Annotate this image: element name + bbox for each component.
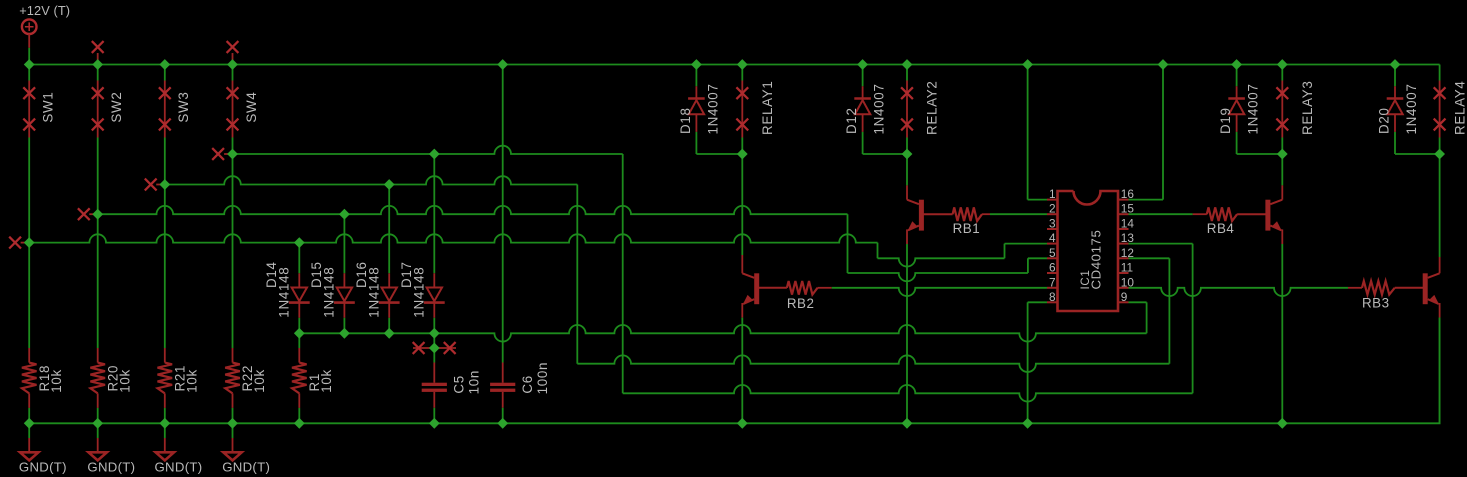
wire Q4 base [1395,287,1424,289]
capacitor C5 10n [422,348,447,423]
wire D15 column [343,214,345,333]
wire D16 column [388,185,390,334]
svg-text:16: 16 [1121,187,1135,201]
switch SW1 contact crosses [23,87,35,99]
label C5 10n [452,370,482,394]
switch SW4 contact crosses [227,87,239,99]
svg-text:10: 10 [1121,275,1135,289]
svg-text:5: 5 [1049,246,1056,260]
svg-text:11: 11 [1121,261,1133,275]
resistor RB4 [1207,207,1237,221]
label D19 1N4007 [1218,83,1261,134]
ground GND(T) [97,423,99,452]
wire pin9 riser [1146,302,1148,333]
wire SW3 drop [576,185,578,364]
wire row SW2 to staircase [94,206,847,214]
diode D19 1N4007 [1228,97,1245,100]
wire mid horizontal to pin12 riser [577,355,1169,372]
IC1 pin numbers left 1-8 [1049,187,1056,304]
junction dots switch rows [24,149,440,248]
relay coil RELAY3 [1281,65,1283,155]
wire pin13 riser [1192,244,1194,394]
svg-text:CD40175: CD40175 [1089,230,1104,290]
svg-text:RELAY4: RELAY4 [1453,80,1467,135]
wire Q3 collector [1281,154,1283,200]
svg-text:1N4148: 1N4148 [412,267,427,318]
switch SW4 [232,65,234,155]
svg-text:6: 6 [1049,261,1056,275]
svg-text:10n: 10n [467,370,482,394]
label D15 1N4148 [309,261,337,317]
wire Q1 base [759,287,787,289]
svg-text:D19: D19 [1218,107,1233,134]
svg-text:RB3: RB3 [1362,296,1390,311]
diode D12 1N4007 [854,97,871,100]
junction dots diode bus [294,328,440,339]
svg-text:GND(T): GND(T) [87,459,135,474]
wire SW2 row to pin5 segment [848,273,1028,281]
wire R18 column [28,243,30,424]
wire Q3 base [1237,213,1266,215]
wire SW1 row to pin4 segment [878,258,1005,266]
junction dots relay bottoms [737,149,1445,160]
pin cross above bus at SW2 [97,53,99,65]
svg-text:C6: C6 [520,375,535,394]
wire pin15 to RB4 [1193,213,1207,215]
label D12 1N4007 [844,83,887,134]
node row SW4 with pin cross [224,153,229,155]
wire low horizontal to pin13 riser [623,385,1193,402]
switch SW2 [97,65,99,215]
svg-text:12: 12 [1121,246,1134,260]
svg-text:1N4007: 1N4007 [1246,83,1261,134]
relay coil RELAY2 [906,65,908,155]
wire into pin4 [1005,243,1048,245]
svg-text:1N4148: 1N4148 [322,267,337,318]
wire into pin5 [1028,257,1047,259]
svg-text:GND(T): GND(T) [155,459,203,474]
wire Q3 emitter [1281,229,1283,423]
label R18 10k [37,365,64,393]
wire Q2 base [923,213,952,215]
svg-text:13: 13 [1121,231,1135,245]
svg-text:2: 2 [1049,202,1056,216]
wire into pin13 [1129,243,1193,245]
relay coil RELAY4 [1439,65,1441,155]
wire ground bus [29,318,1439,424]
node row SW2 with pin cross [89,213,94,215]
switch SW1 [28,65,30,243]
switch SW3 [164,65,166,185]
diode D19 1N4007 column [1236,65,1238,155]
svg-text:D18: D18 [678,107,693,134]
svg-text:1N4148: 1N4148 [277,267,292,318]
wire Q1 collector [741,154,743,273]
svg-text:SW4: SW4 [244,91,259,122]
wire Q2 collector [906,154,908,200]
diode D20 1N4007 column [1394,65,1396,155]
wire pin1 to +12V bus [1028,65,1047,200]
power +12V(T) supply symbol [22,19,37,64]
wire Q4 emitter [1439,303,1441,423]
svg-text:1N4007: 1N4007 [872,83,887,134]
pin cross above bus at SW4 [232,53,234,65]
wire RB2 to pin7 [818,287,832,289]
resistor R1 10k [292,363,307,394]
wire row SW1 to staircase [26,234,878,242]
svg-text:100n: 100n [535,362,550,395]
svg-text:10k: 10k [319,369,334,393]
wire R22 column [232,154,234,423]
resistor R20 10k [90,363,105,394]
resistor R21 10k [158,363,173,394]
svg-text:RB2: RB2 [787,296,815,311]
node C5 top with pin crosses [413,333,456,348]
label R1 10k [307,369,334,393]
transistor Q3 (RELAY3 driver) [1265,200,1270,231]
wire row SW3 [161,176,577,184]
junction dots ground bus [24,418,1288,429]
label D18 1N4007 [678,83,721,134]
svg-text:1N4148: 1N4148 [366,267,381,318]
wire pin10 to RB3 [1348,287,1362,289]
wire pin8 to ground bus [1028,302,1047,423]
ground GND(T) [164,423,166,452]
wire R20 column [97,214,99,423]
transistor Q4 (RELAY4 driver) [1423,273,1428,304]
ground GND(T) [28,423,30,452]
junction dot C5 node [429,343,440,354]
resistor R22 10k [225,363,240,394]
wire Q1 emitter [741,303,743,423]
resistor RB2 [787,281,818,295]
wire pin12 riser [1168,258,1170,363]
ground GND(T) [232,423,234,452]
diode D14 1N4148 [292,288,307,302]
wire into pin12 [1129,257,1170,259]
wire pin5 riser [1027,258,1029,273]
svg-text:3: 3 [1049,217,1056,231]
label D20 1N4007 [1377,83,1420,134]
svg-text:GND(T): GND(T) [222,459,270,474]
wire SW1 staircase down [877,243,879,259]
switch SW3 contact crosses [159,87,171,99]
diode D16 1N4148 [382,288,397,302]
IC1 pin stubs right [1118,200,1129,303]
svg-text:1N4007: 1N4007 [706,83,721,134]
wire SW2 staircase down [847,214,849,273]
svg-text:C5: C5 [452,375,467,394]
IC U1 CD40175 body [1058,191,1119,311]
label R20 10k [105,365,132,393]
wire Q2 emitter [906,229,908,423]
label D16 1N4148 [354,261,382,317]
wire RB1 to pin2 [982,213,990,215]
svg-text:7: 7 [1049,275,1056,289]
label IC1 CD40175 [1080,230,1104,290]
node row SW1 with pin cross [21,242,26,244]
wire D12 to RELAY2 [863,153,907,155]
svg-text:4: 4 [1049,231,1056,245]
wire pin16 to +12V bus [1129,65,1164,200]
node row SW3 with pin cross [156,184,161,186]
label D14 1N4148 [264,261,292,317]
IC1 pin numbers 16-9 [1121,187,1135,304]
svg-text:10k: 10k [49,369,64,393]
svg-text:10k: 10k [252,369,267,393]
svg-text:SW2: SW2 [109,91,124,122]
svg-text:GND(T): GND(T) [19,459,67,474]
svg-text:RB4: RB4 [1207,221,1235,236]
svg-text:RELAY3: RELAY3 [1300,80,1315,135]
diode D17 1N4148 [427,288,442,302]
svg-text:9: 9 [1121,290,1128,304]
diode D12 1N4007 column [862,65,864,155]
svg-text:1: 1 [1049,187,1056,201]
junction dots on +12V bus [24,59,1401,70]
resistor R18 10k [22,363,37,394]
svg-text:RB1: RB1 [953,221,981,236]
capacitor C6 100n [490,65,515,424]
svg-text:RELAY1: RELAY1 [760,80,775,135]
wire D14 column [298,243,300,334]
wire SW4 drop [622,154,624,393]
label D17 1N4148 [399,261,427,317]
svg-text:+12V (T): +12V (T) [19,3,70,18]
diode D18 1N4007 [688,97,705,100]
label C6 100n [520,362,550,395]
wire R21 column [164,185,166,424]
svg-text:10k: 10k [184,369,199,393]
wire Q4 collector [1439,154,1441,273]
wire +12V bus [29,64,1439,66]
label R21 10k [172,365,199,393]
switch SW2 contact crosses [92,87,104,99]
svg-text:D20: D20 [1377,107,1392,134]
transistor Q1 (RELAY1 driver) [754,273,759,304]
wire D20 to RELAY4 [1395,153,1440,155]
relay coil RELAY1 [741,65,743,155]
svg-text:1N4007: 1N4007 [1404,83,1419,134]
svg-text:SW3: SW3 [176,91,191,122]
diode D20 1N4007 [1387,97,1404,100]
svg-text:D12: D12 [844,107,859,134]
wire diode cathode bus to pin9 riser [299,325,1146,342]
wire D17 column [433,154,435,333]
wire into pin9 [1129,301,1147,303]
wire row SW4 [229,146,623,154]
svg-text:8: 8 [1049,290,1056,304]
svg-text:RELAY2: RELAY2 [925,80,940,135]
wire R1 column [298,333,300,423]
transistor Q2 (RELAY2 driver) [919,200,924,231]
diode D15 1N4148 [337,288,352,302]
wire D19 to RELAY3 [1237,153,1283,155]
IC1 pin stubs left [1047,200,1058,303]
label R22 10k [240,365,267,393]
wire D18 to RELAY1 [696,153,742,155]
wire pin4 riser [1004,244,1006,259]
svg-text:14: 14 [1121,217,1135,231]
resistor RB1 [953,207,982,221]
diode D18 1N4007 column [695,65,697,155]
svg-text:10k: 10k [117,369,132,393]
resistor RB3 [1362,281,1395,295]
svg-text:15: 15 [1121,202,1135,216]
svg-text:SW1: SW1 [41,91,56,122]
